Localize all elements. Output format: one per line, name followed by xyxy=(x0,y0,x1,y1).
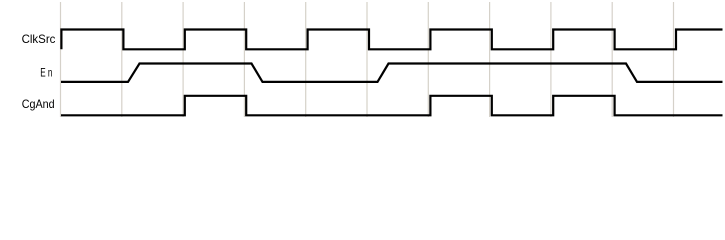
gridline t2 xyxy=(182,2,184,117)
svg-text:E n: E n xyxy=(40,66,52,80)
waveform CgAnd xyxy=(61,96,723,116)
gridline t5 xyxy=(366,2,368,117)
svg-text:ClkSrc: ClkSrc xyxy=(22,32,56,46)
gridline t9 xyxy=(611,2,613,117)
svg-text:CgAnd: CgAnd xyxy=(22,97,55,111)
gridline t3 xyxy=(243,2,245,117)
gridline t4 xyxy=(305,2,307,117)
gridline t10 xyxy=(673,2,675,117)
gridline t8 xyxy=(550,2,552,117)
waveform En xyxy=(61,64,723,82)
waveform ClkSrc xyxy=(61,30,722,50)
gridline t6 xyxy=(427,2,429,117)
gridline t1 xyxy=(121,2,123,117)
gridline t0 xyxy=(60,2,62,117)
gridline t7 xyxy=(489,2,491,117)
